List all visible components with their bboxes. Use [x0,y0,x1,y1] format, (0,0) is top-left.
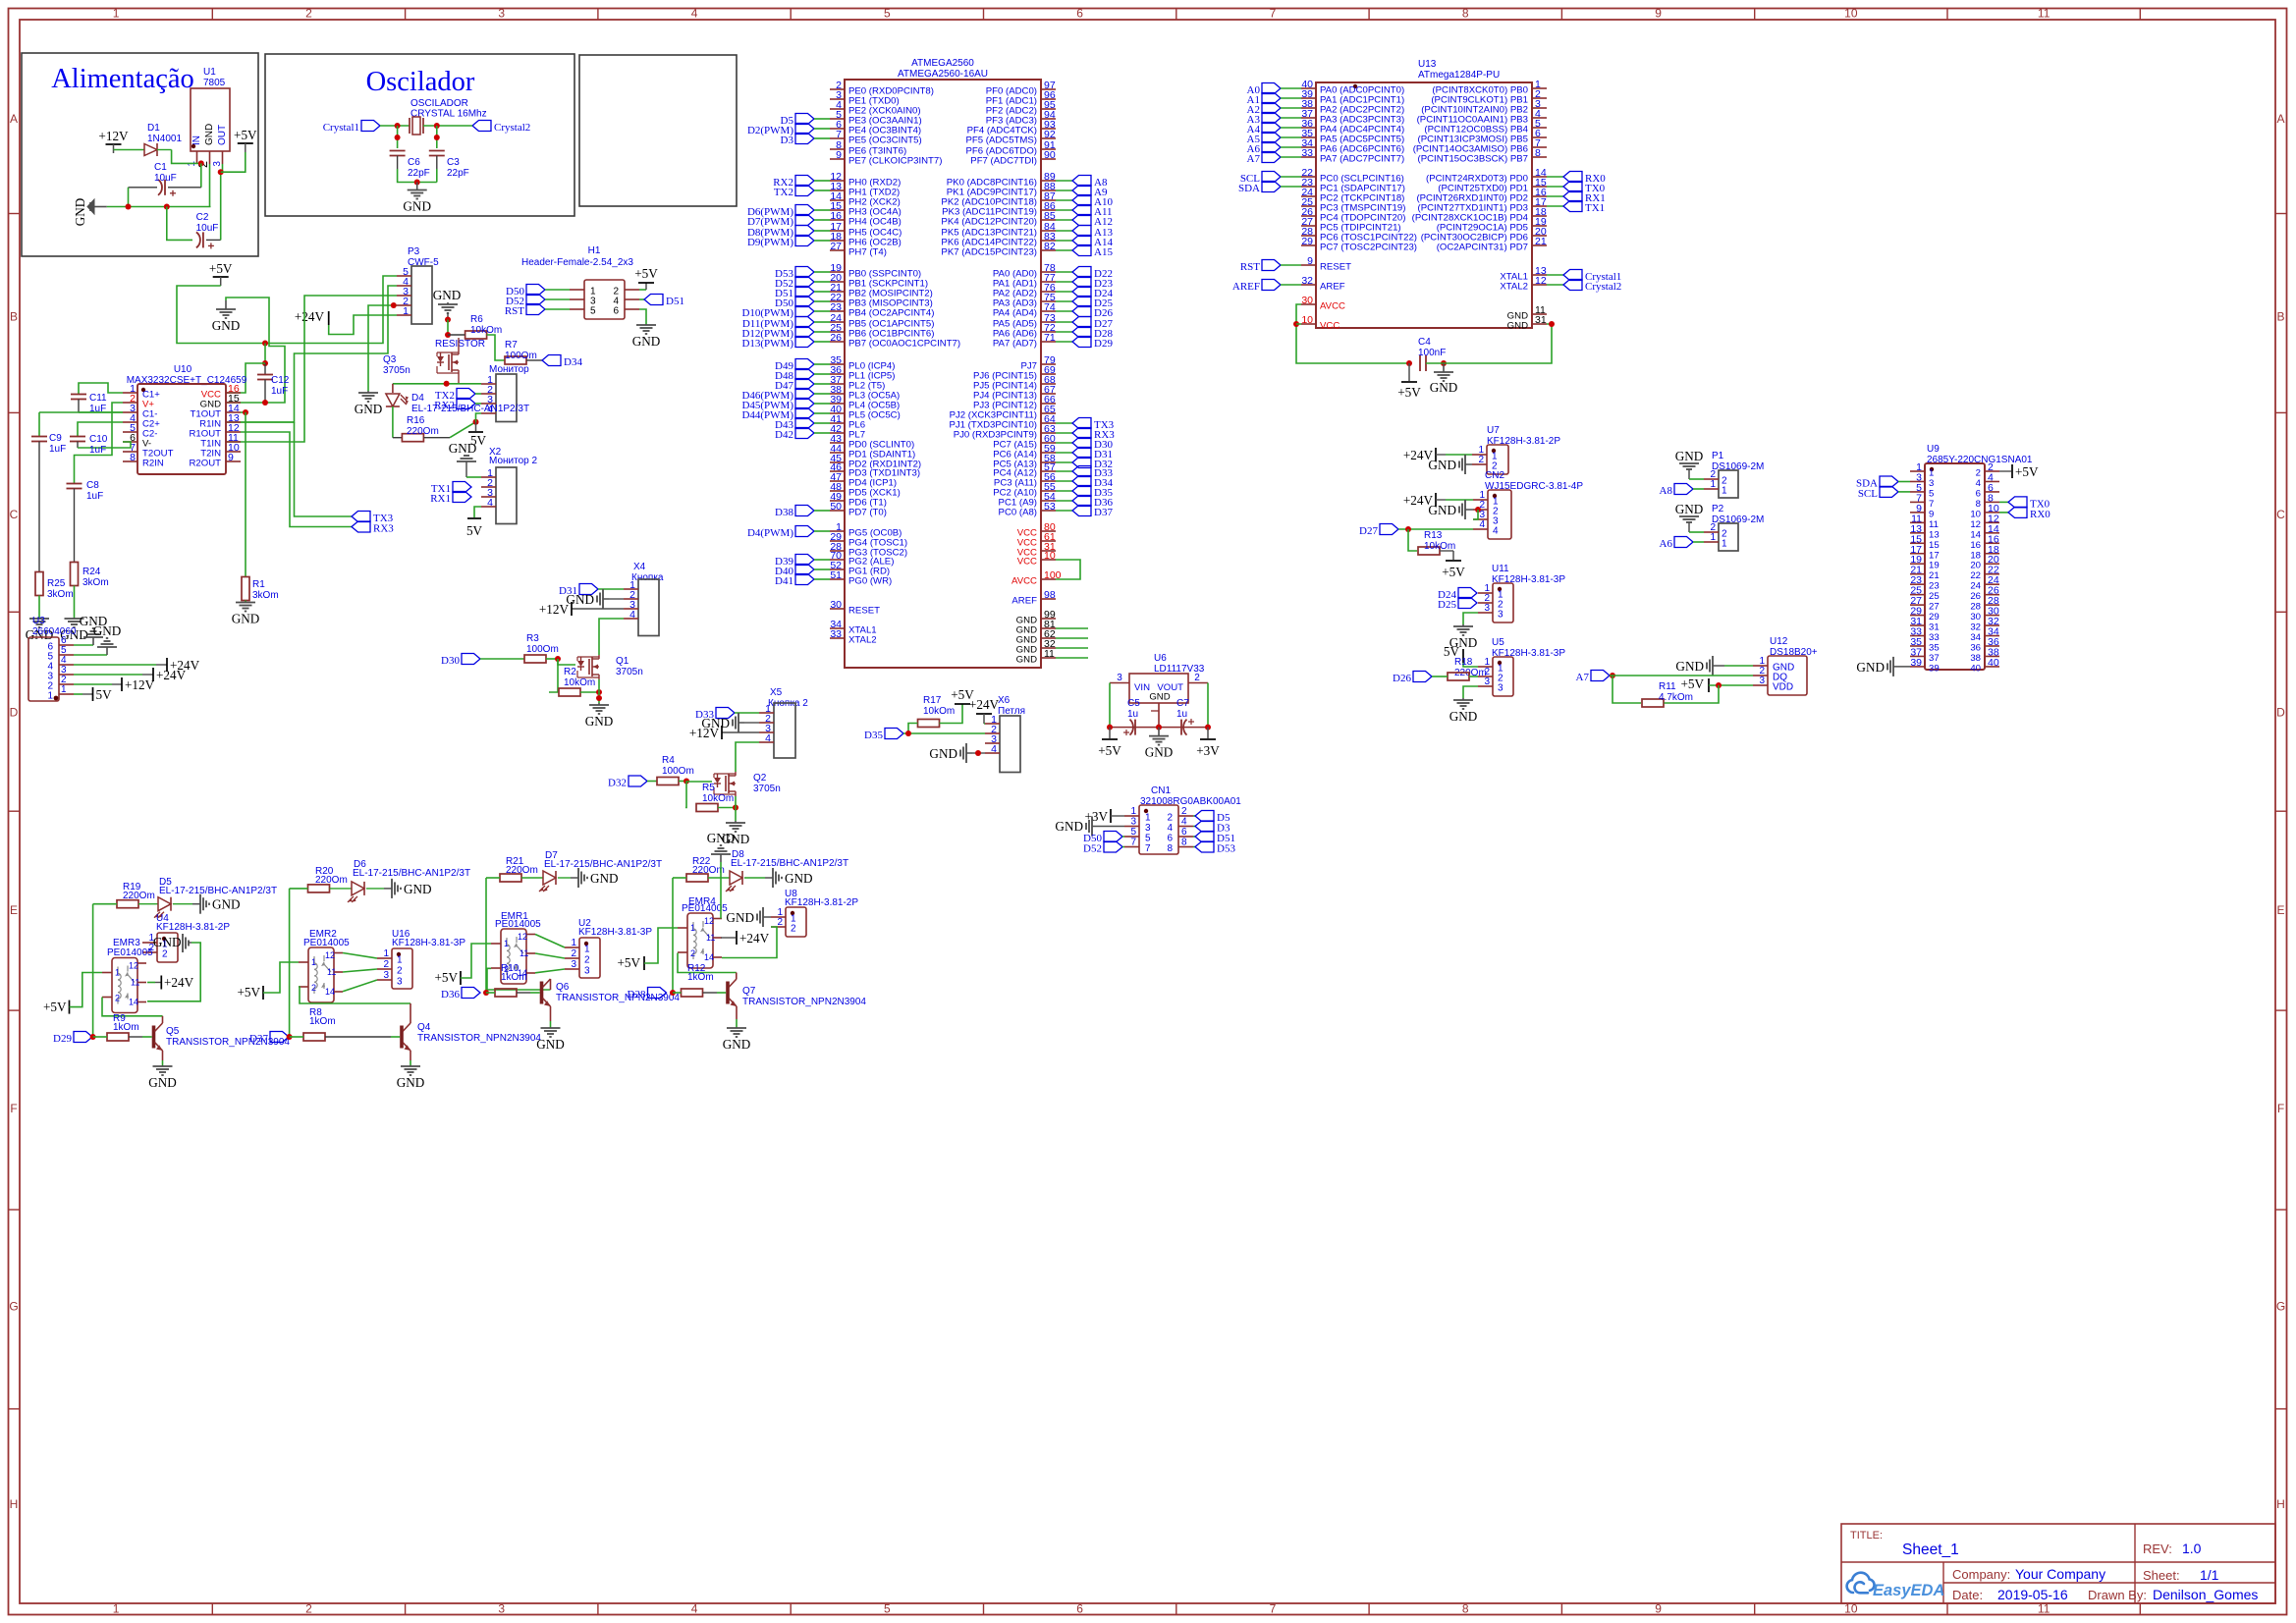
net flag D23 [1056,281,1072,283]
svg-text:PE014005: PE014005 [303,938,350,948]
U8 pin 2 [771,926,786,928]
svg-text:8: 8 [1976,499,1981,510]
svg-text:C6: C6 [408,157,420,168]
wire R10 to base [517,992,530,994]
U15 pin 27 PH7 [830,249,845,251]
svg-text:3705n: 3705n [616,667,643,677]
net flag D5 CN1 [1193,815,1195,817]
svg-text:CN1: CN1 [1151,785,1171,796]
svg-text:6: 6 [1076,7,1083,21]
net flag RX3 [1056,432,1072,434]
svg-text:1: 1 [113,1602,120,1616]
svg-text:220Om: 220Om [123,891,155,901]
svg-text:2: 2 [791,924,796,935]
ground GND U9 pin39 [1893,666,1910,668]
svg-text:+12V: +12V [689,726,720,740]
node C3 top [434,135,440,140]
U10 pin 5 C2- [123,431,137,433]
power flag +24V U3 pin4 [166,658,168,672]
wire crystal to Crystal2 [423,125,472,127]
wire U1 pin1 down [196,162,198,165]
svg-text:22: 22 [1970,570,1981,581]
U10 pin 10 T2IN [226,451,241,453]
svg-text:+12V: +12V [125,677,155,692]
net flag D29 [1056,341,1072,343]
svg-text:GND: GND [726,910,754,925]
net flag A8 [1674,484,1693,495]
CN2 pin 4 [1473,528,1488,530]
resistor R11 4.7kOm [1613,676,1641,703]
wire C2 to OUT [220,172,222,240]
wire R5 branch [685,782,686,808]
svg-text:EL-17-215/BHC-AN1P2/3T: EL-17-215/BHC-AN1P2/3T [411,404,529,414]
svg-text:2: 2 [584,955,590,966]
relay EMR4 coil pin 2 [678,951,687,953]
net flag TX1 [453,482,471,493]
svg-text:KF128H-3.81-3P: KF128H-3.81-3P [392,938,465,948]
svg-text:Header-Female-2.54_2x3: Header-Female-2.54_2x3 [521,257,633,268]
net flag A7 [1591,671,1610,681]
ground GND R25 [38,618,40,619]
row ticks and letters [9,213,21,215]
U15 pin 5 PE3 [830,118,845,120]
svg-text:X6: X6 [998,695,1011,706]
svg-text:TX1: TX1 [1585,202,1605,214]
svg-text:U7: U7 [1487,425,1500,436]
svg-text:EasyEDA: EasyEDA [1873,1582,1944,1599]
U6 pin 2 VOUT [1188,682,1208,684]
svg-text:4: 4 [1181,817,1187,828]
U9 pin 12 [1985,521,1999,523]
wire coil pin2 to Q4 [299,987,410,1003]
svg-text:PB7 (OC0AOC1CPCINT7): PB7 (OC0AOC1CPCINT7) [848,339,960,350]
svg-text:GND: GND [707,831,736,845]
svg-text:ATmega1284P-PU: ATmega1284P-PU [1418,70,1500,81]
svg-text:29: 29 [1301,236,1313,247]
net flag TX1 U13 [1547,205,1563,207]
wire U3 pin1 5V [74,693,82,695]
U15 pin 75 PA3 [1041,300,1056,302]
net flag D27 [1056,321,1072,323]
H1 pins 3 4 [570,298,584,300]
svg-text:30: 30 [830,599,842,611]
svg-text:3: 3 [584,966,590,977]
wire gate Q1 [558,659,575,665]
net flag D6(PWM) [795,205,814,216]
U9 pin 17 [1910,553,1925,555]
U9 pin 18 [1985,553,1999,555]
svg-text:Sheet_1: Sheet_1 [1902,1542,1959,1558]
relay EMR1 PE014005 [501,929,526,984]
svg-text:9: 9 [1655,1602,1662,1616]
svg-text:IN: IN [191,135,202,145]
svg-text:XTAL2: XTAL2 [1500,282,1528,293]
svg-text:PA4 (AD4): PA4 (AD4) [993,308,1037,319]
capacitor C6 22pF [390,150,406,152]
svg-text:D27: D27 [1359,525,1378,537]
net flag D39 [795,555,814,566]
svg-text:1: 1 [690,923,695,933]
wire EMR4 pin12 to GND [720,862,722,919]
U10 pin 6 V- [123,441,137,443]
svg-text:1.0: 1.0 [2182,1541,2202,1556]
net flag A5 U13 [1262,133,1281,143]
wire +5V to coil EMR4 [644,928,678,963]
svg-text:D29: D29 [53,1033,72,1045]
U13 pin 36 PA4 [1301,127,1316,129]
svg-text:35: 35 [1929,642,1940,653]
svg-text:A8: A8 [1660,485,1673,497]
svg-text:32: 32 [1970,622,1981,633]
svg-text:GND: GND [397,1075,425,1090]
U15 pin 40 PL5 [830,412,845,414]
wire R8 to base [325,1036,391,1038]
svg-text:Q6: Q6 [556,982,570,993]
svg-text:+5V: +5V [634,266,658,281]
CN2 pin 2 [1473,509,1488,511]
U9 pin 10 [1985,512,1999,514]
svg-text:39: 39 [1910,657,1922,669]
power flag +5V mid [213,276,229,278]
ground GND CN1 [1092,826,1124,828]
net flag SCL U13 [1262,172,1281,183]
svg-text:2: 2 [1478,455,1484,465]
U15 pin 98 AREF [1041,598,1056,600]
svg-text:B: B [10,309,18,323]
svg-text:10uF: 10uF [154,173,177,184]
wire R25 to GND [38,596,40,619]
svg-text:1/1: 1/1 [2200,1567,2219,1583]
net flag D32 [629,776,647,786]
net flag A13 [1056,230,1072,232]
U9 pin 4 [1985,480,1999,482]
net flag D30 [462,654,480,665]
svg-text:3kOm: 3kOm [252,590,279,601]
wire VOUT down [1207,683,1209,728]
U15 pin 92 PF5 [1041,137,1056,139]
net flag D35 [885,729,903,739]
node D4 top [444,381,450,387]
U15 pin 16 PH4 [830,219,845,221]
U9 pin 32 [1985,624,1999,626]
wire +5V to coil [70,973,103,1007]
net flag D5 [795,114,814,125]
U9 pin 3 [1910,480,1925,482]
svg-text:1: 1 [504,939,509,948]
svg-text:C3: C3 [447,157,460,168]
U15 pin 69 PJ6 [1041,373,1056,375]
resistor R4 100Om [647,781,657,783]
svg-text:3kOm: 3kOm [82,577,109,588]
svg-text:RST: RST [1240,261,1260,273]
svg-text:Q3: Q3 [383,354,397,365]
U15 pin 86 PK3 [1041,209,1056,211]
relay EMR1 contact pin 11 [526,952,535,954]
svg-text:33: 33 [830,628,842,640]
svg-text:28: 28 [1970,602,1981,613]
svg-text:+12V: +12V [98,129,129,143]
net flag SCL U9 [1880,486,1898,497]
svg-text:4: 4 [691,1602,698,1616]
ground GND Q4 [410,1065,411,1066]
svg-text:H: H [2276,1497,2285,1511]
svg-text:11: 11 [1044,648,1055,660]
relay EMR2 contact pin 14 [334,991,343,993]
X6 pin 4 [985,752,1000,754]
wire V+ to C8 [75,403,124,484]
U15 pin 96 PF1 [1041,98,1056,100]
ground GND oscillator [416,183,418,190]
svg-text:Date:: Date: [1952,1588,1983,1602]
U9 pin 5 [1910,491,1925,493]
svg-text:26: 26 [1970,591,1981,602]
svg-text:220Om: 220Om [506,865,538,876]
svg-text:R11: R11 [1659,681,1676,692]
svg-text:+24V: +24V [739,931,770,946]
node GND rail 2 [164,204,170,210]
power flag +12V X5 pin3 [722,731,759,733]
svg-text:2: 2 [1976,468,1981,479]
wire U3 pin5 GND [74,654,107,656]
svg-text:+5V: +5V [2015,464,2039,479]
CN2 pin 1 [1473,499,1488,501]
svg-text:10: 10 [1044,550,1056,562]
U13 pin 29 PC7 [1301,244,1316,246]
U15 pin 38 PL3 [830,393,845,395]
svg-text:C7: C7 [1176,698,1189,709]
svg-text:1: 1 [571,938,576,948]
U9 pin 19 [1910,563,1925,565]
svg-text:GND: GND [1507,321,1528,332]
svg-text:31: 31 [1535,314,1547,326]
svg-text:6: 6 [613,306,619,317]
diode D8 LED [708,877,730,879]
U15 pin 68 PJ5 [1041,383,1056,385]
U8 pin 1 [771,916,786,918]
svg-text:GND: GND [232,612,260,626]
svg-text:71: 71 [1044,332,1056,344]
U9 pin 13 [1910,532,1925,534]
U15 pin 3 PE1 [830,98,845,100]
U15 pin 48 PD5 [830,490,845,492]
svg-text:VIN: VIN [1134,682,1150,693]
capacitor C11 1uF [79,383,123,395]
U13 pin 16 PD2 [1532,195,1547,197]
svg-text:3: 3 [498,1602,505,1616]
svg-text:38: 38 [1970,653,1981,664]
svg-text:32: 32 [1301,275,1313,287]
svg-text:VDD: VDD [1773,682,1793,693]
net flag Crystal2 [472,121,491,132]
net flag RX2 [457,399,475,409]
U16 pin 3 [377,979,392,981]
svg-text:D4: D4 [411,393,424,404]
svg-text:D30: D30 [441,655,460,667]
svg-text:2: 2 [1181,806,1187,817]
svg-text:2: 2 [1167,813,1173,824]
svg-text:GND: GND [449,441,477,456]
U9 pin 30 [1985,615,1999,617]
U3 pin 2 [59,683,74,685]
net flag D52 H1 [526,295,545,305]
U9 pin 28 [1985,604,1999,606]
net flag RX0 U13 [1547,176,1563,178]
svg-text:R2OUT: R2OUT [189,459,221,469]
X4 pin 3 [624,608,638,610]
U13 pin 2 PB1 [1532,97,1547,99]
svg-text:5: 5 [1145,834,1151,844]
svg-text:4: 4 [1479,519,1485,530]
wire U3 pin3 +24V [74,674,142,676]
resistor R24 3kOm [71,563,79,586]
svg-text:GND: GND [1675,502,1704,516]
U15 pin 79 PJ7 [1041,363,1056,365]
svg-text:D4(PWM): D4(PWM) [747,527,793,539]
U15 pin 43 PD0 [830,442,845,444]
U15 pin 80 VCC [1041,530,1056,532]
svg-text:U5: U5 [1492,637,1504,648]
U15 pin 18 PH6 [830,240,845,242]
svg-text:220Om: 220Om [692,865,725,876]
U9 pin 15 [1910,542,1925,544]
svg-text:5V: 5V [96,687,113,702]
svg-text:GND: GND [632,334,661,349]
svg-text:A: A [10,112,18,126]
wire EMR4 pin14 to U8 pin2 [722,927,777,958]
relay EMR1 coil pin 2 [491,967,501,969]
X1 pin 4 [481,412,496,414]
relay EMR2 coil pin 1 [299,961,308,963]
wire Q7 emitter gnd [736,1006,738,1019]
ground GND Q5 [162,1065,164,1066]
svg-text:31: 31 [1929,622,1940,633]
node OUT junction [218,169,224,175]
U10 pin 14 T1OUT [226,411,241,413]
svg-text:D37: D37 [249,1033,268,1045]
wire +5V to coil EMR2 [263,962,299,993]
svg-text:C2: C2 [196,212,209,223]
U9 pin 9 [1910,512,1925,514]
power flag 5V U3 pin1 [92,687,94,701]
svg-text:D41: D41 [775,575,793,587]
transistor Q7 NPN2N3904 [736,973,738,980]
U15 pin 45 PD2 [830,461,845,463]
wire R17 left to D35 node [908,724,918,734]
svg-text:OUT: OUT [217,125,228,145]
svg-text:+3V: +3V [1084,809,1108,824]
net flag D13(PWM) [795,337,814,348]
wire R5 right to source node [718,807,736,809]
svg-text:PK7 (ADC15PCINT23): PK7 (ADC15PCINT23) [941,247,1037,258]
net flag D41 [795,574,814,585]
U15 pin 34 XTAL1 [830,627,845,629]
regulator U1 7805 [191,88,230,151]
resistor R5 10kOm [696,804,718,812]
U15 pin 89 PK0 [1041,180,1056,182]
net flag D10(PWM) [795,306,814,317]
relay EMR1 contact pin 12 [526,934,535,936]
relay EMR4 contact pin 11 [713,937,722,939]
wire Q4 emitter gnd [410,1051,411,1060]
svg-text:TX2: TX2 [774,187,793,198]
U11 pin 2 [1478,602,1493,604]
svg-text:PE014005: PE014005 [495,919,541,930]
ground GND U11 [1462,624,1464,626]
U15 pin 28 PG3 [830,550,845,552]
svg-text:ATMEGA2560-16AU: ATMEGA2560-16AU [898,69,988,80]
svg-text:+5V: +5V [1098,743,1121,758]
net flag RST H1 [526,304,545,315]
net flag A4 U13 [1262,123,1281,134]
U1 pin 2 [209,151,211,164]
net flag D24 [1056,291,1072,293]
U9 pin 33 [1910,635,1925,637]
net flag D51 CN1 [1193,836,1195,838]
svg-text:11: 11 [1929,519,1939,530]
net flag D44(PWM) [795,408,814,419]
svg-text:10kOm: 10kOm [923,706,955,717]
net flag D26 [1413,672,1432,682]
wire U11 pin3 gnd [1463,613,1478,624]
ground GND H1 [639,309,646,324]
power flag +12V X4 pin3 [572,608,624,610]
P3 pin 3 [397,295,411,297]
U10 pin 12 R1OUT [226,431,241,433]
U13 pin 6 PB5 [1532,136,1547,138]
U9 pin 21 [1910,573,1925,575]
empty section box [579,55,737,206]
net flag D11(PWM) [795,317,814,328]
svg-text:23: 23 [1929,581,1940,592]
svg-text:7: 7 [1270,7,1277,21]
svg-text:+5V: +5V [1397,385,1421,400]
svg-text:P1: P1 [1712,451,1724,461]
svg-text:PG0 (WR): PG0 (WR) [848,576,892,587]
net flag A14 [1056,240,1072,242]
wire +5V to coil EMR1 [461,944,491,978]
svg-text:U9: U9 [1927,444,1940,455]
net flag D33 [1056,470,1072,472]
svg-text:AVCC: AVCC [1320,301,1345,312]
resistor R12 1kOm [682,989,703,997]
wire R6 right down to R7 [487,335,505,360]
power flag 5V below X2 [474,507,481,517]
net flag A8 [1056,180,1072,182]
svg-text:2: 2 [383,959,389,970]
svg-text:A: A [2276,112,2284,126]
U15 pin 24 PB5 [830,321,845,323]
U13 pin 18 PD4 [1532,215,1547,217]
svg-text:GND: GND [723,1037,751,1052]
svg-text:AREF: AREF [1232,281,1260,293]
ground GND left [94,206,107,208]
U15 pin 11 GND [1041,657,1056,659]
svg-text:C11: C11 [89,393,107,404]
U7 pin 1 [1472,454,1487,456]
wire C1 left to GND rail [128,188,130,207]
svg-text:Your Company: Your Company [2015,1566,2105,1582]
svg-text:EL-17-215/BHC-AN1P2/3T: EL-17-215/BHC-AN1P2/3T [731,858,848,869]
svg-text:D9(PWM): D9(PWM) [747,237,793,248]
U10 pin 7 T2OUT [123,451,137,453]
U15 pin 41 PL6 [830,422,845,424]
svg-text:3: 3 [1498,683,1503,694]
svg-text:R13: R13 [1424,530,1443,541]
svg-text:6: 6 [1976,488,1981,499]
U13 pin 13 XTAL1 [1532,274,1547,276]
wire coil pin2 to Q5 [102,998,163,1016]
svg-text:GND: GND [73,198,87,227]
